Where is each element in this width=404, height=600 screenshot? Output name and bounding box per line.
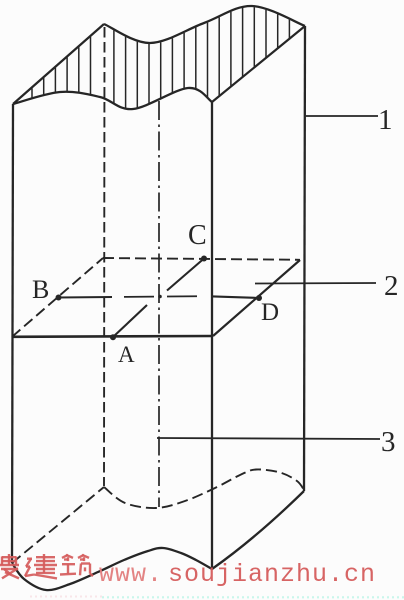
column top break: back wavy break line — [104, 6, 305, 43]
column vertical centerline (dash-dot axis) — [158, 101, 160, 507]
section center point — [158, 295, 162, 299]
column back-right vertical edge — [304, 26, 305, 491]
leader line 2 (to section plane) — [255, 282, 376, 285]
column top break: left receding edge — [13, 24, 104, 104]
svg-text:A: A — [118, 342, 135, 367]
column bottom break: right receding edge (solid) — [212, 491, 304, 569]
svg-text:B: B — [32, 275, 49, 304]
svg-text:3: 3 — [381, 426, 396, 458]
node A dot (front edge midpoint) — [110, 334, 116, 340]
svg-text:C: C — [188, 220, 207, 251]
column top break: front wavy break line — [13, 88, 212, 109]
svg-text:D: D — [261, 299, 279, 326]
top break surface hatching — [32, 7, 289, 108]
column top break: right receding edge — [212, 26, 305, 102]
node C dot (back edge midpoint) — [201, 256, 207, 262]
section plane right edge (solid, receding) — [213, 260, 300, 336]
column hidden back-left vertical edge (dashed) — [103, 27, 106, 486]
leader line 1 (to back-right edge) — [306, 115, 378, 117]
svg-text:2: 2 — [384, 270, 399, 302]
svg-text:soujianzhu.cn: soujianzhu.cn — [168, 560, 376, 589]
column front-right vertical edge — [211, 102, 213, 568]
section plane left edge (dashed, hidden, receding) — [12, 258, 103, 337]
watermark chinese characters 搜建筑 — [0, 554, 19, 578]
column bottom break: front wavy break line — [12, 548, 212, 590]
section plane front edge (solid) — [12, 335, 213, 338]
section plane back edge (dashed, hidden) — [103, 258, 300, 260]
section centerline B-D (horizontal) — [58, 296, 112, 299]
node B dot (left edge midpoint) — [56, 295, 62, 301]
svg-text:www.: www. — [99, 560, 163, 589]
column front-left vertical edge — [12, 104, 13, 563]
column bottom break: hidden left receding edge (dashed) — [12, 487, 104, 563]
svg-text:1: 1 — [378, 104, 393, 136]
section centerline A-C (receding) — [113, 305, 147, 337]
leader line 3 (to centerline axis) — [157, 438, 380, 439]
column bottom break: hidden back wavy break line (dashed) — [104, 469, 304, 508]
node D dot (right edge midpoint) — [256, 295, 262, 301]
watermark second row fringe at bottom edge — [102, 596, 404, 598]
